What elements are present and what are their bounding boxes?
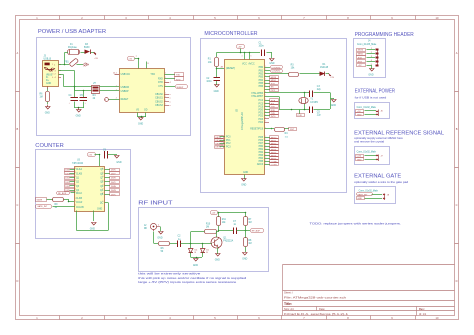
svg-text:COUNTER: COUNTER	[35, 143, 64, 149]
wire emitter to gnd	[217, 248, 219, 255]
svg-text:1: 1	[75, 201, 76, 203]
wires external power	[365, 111, 377, 115]
wire U1 TXD to label	[165, 74, 176, 76]
resistor R6 (USB shield)	[40, 89, 50, 105]
svg-text:+5V: +5V	[238, 47, 242, 49]
svg-text:PD5: PD5	[259, 137, 264, 139]
ground emitter	[215, 254, 220, 262]
global label RXD	[175, 77, 184, 82]
svg-text:RXD: RXD	[158, 78, 163, 80]
svg-text:PB6: PB6	[259, 86, 264, 88]
svg-text:GND: GND	[76, 116, 81, 118]
svg-text:File: ATMega328-usb-counter.sc: File: ATMega328-usb-counter.sch	[284, 295, 347, 299]
svg-text:POWER / USB ADAPTER: POWER / USB ADAPTER	[38, 29, 107, 35]
resistor pack R4	[92, 83, 100, 100]
svg-text:COM0: COM0	[271, 161, 278, 163]
wire rf +5V rail	[218, 212, 246, 214]
ferrite bead FB1	[65, 58, 84, 67]
ground C9	[115, 156, 122, 165]
svg-text:AVCC: AVCC	[248, 63, 255, 66]
svg-text:for if USB is not used: for if USB is not used	[355, 96, 387, 100]
capacitor C9	[103, 150, 117, 159]
global label RF_BUF (counter)	[57, 192, 76, 196]
pin numbers MCU right edge	[265, 66, 266, 165]
svg-text:4: 4	[116, 85, 117, 87]
svg-text:XTAL1/PB6: XTAL1/PB6	[251, 92, 264, 95]
pin texts USB	[52, 64, 55, 79]
wires external gate	[365, 195, 383, 199]
global labels external power	[356, 110, 364, 117]
junction xtal bottom	[304, 109, 306, 111]
junction U1 gnd	[141, 116, 143, 118]
svg-text:optionally supply external 10M: optionally supply external 10MHz here	[354, 136, 403, 140]
wire MCU reset row	[265, 128, 290, 130]
pin numbers counter edges	[75, 168, 103, 207]
svg-text:V: V	[52, 64, 53, 66]
power symbol +5V (USB vbus)	[94, 53, 99, 60]
ground xtal	[331, 99, 337, 108]
svg-text:PB2: PB2	[259, 74, 264, 76]
svg-text:CCLKB: CCLKB	[76, 207, 84, 209]
svg-text:C: C	[456, 203, 458, 207]
pin stub U1 DTR	[165, 82, 170, 84]
svg-text:RST: RST	[358, 61, 363, 63]
svg-text:RF_BUF: RF_BUF	[252, 231, 261, 233]
svg-text:9: 9	[103, 193, 104, 195]
svg-text:KiCad E.D.A. eeschema (5.1.2): KiCad E.D.A. eeschema (5.1.2)-1	[284, 312, 349, 316]
wire clamp diodes common	[191, 257, 203, 259]
wire R4 to U1 USBDP	[100, 90, 120, 92]
svg-text:+5V: +5V	[358, 65, 362, 67]
global label CLKI	[297, 110, 305, 117]
svg-text:Title:: Title:	[284, 302, 292, 306]
svg-text:CCLR: CCLR	[76, 202, 83, 204]
svg-text:DIVA: DIVA	[111, 185, 116, 188]
wire VBUS pin to fuse	[59, 53, 69, 65]
wire +5V rail MCU top	[217, 53, 273, 59]
junction counter vcc	[99, 154, 101, 156]
svg-text:Conn_01x05_Male: Conn_01x05_Male	[357, 44, 377, 46]
svg-text:TXD: TXD	[150, 74, 155, 76]
capacitor C1	[259, 43, 265, 57]
svg-text:PC5: PC5	[259, 103, 264, 105]
svg-text:1: 1	[75, 176, 76, 178]
svg-text:4: 4	[116, 98, 117, 100]
svg-text:KEY0: KEY0	[216, 137, 222, 139]
capacitor C2 rf	[178, 236, 182, 247]
svg-text:R10: R10	[206, 223, 211, 225]
svg-text:B: B	[456, 127, 458, 131]
svg-text:1M: 1M	[206, 227, 209, 229]
wire XTAL1	[265, 93, 331, 110]
svg-text:MOSI: MOSI	[358, 50, 364, 52]
svg-text:B: B	[17, 127, 19, 131]
svg-text:KEY3: KEY3	[216, 147, 222, 149]
power label +5V (rf)	[211, 211, 218, 215]
svg-text:this will pick up noise and/or: this will pick up noise and/or oscillate…	[138, 276, 247, 280]
wire R4 to U1 USBDM	[100, 86, 120, 88]
svg-text:CBUS3: CBUS3	[155, 105, 163, 107]
diode D1	[320, 64, 330, 76]
svg-text:74HC4040: 74HC4040	[72, 163, 84, 165]
connector J7 external reference	[357, 152, 384, 162]
svg-text:CBUS2: CBUS2	[155, 101, 163, 103]
wire C7 to RF_BUF	[237, 230, 251, 232]
svg-text:GND: GND	[116, 162, 121, 164]
svg-text:CLKI: CLKI	[297, 115, 302, 117]
svg-text:PB5: PB5	[259, 83, 264, 85]
svg-text:GND: GND	[45, 113, 50, 115]
svg-text:CLKB: CLKB	[76, 173, 82, 175]
svg-text:100n: 100n	[259, 46, 265, 48]
no-connect circle symbol	[105, 98, 120, 102]
svg-text:MOSI: MOSI	[271, 77, 277, 79]
svg-text:PD1: PD1	[259, 113, 264, 115]
svg-text:1M: 1M	[248, 243, 251, 245]
svg-text:GND: GND	[243, 172, 248, 174]
svg-text:PC1: PC1	[226, 140, 231, 142]
svg-text:6: 6	[251, 56, 252, 58]
svg-text:PB1: PB1	[259, 149, 264, 151]
svg-text:SLEEP: SLEEP	[177, 87, 184, 89]
svg-text:GATE: GATE	[37, 199, 43, 202]
svg-text:PD4: PD4	[259, 122, 264, 124]
svg-text:Sheet: /: Sheet: /	[284, 291, 293, 295]
svg-text:10k: 10k	[285, 136, 288, 138]
svg-text:PC0: PC0	[226, 137, 231, 139]
wire U1 RXD to label	[165, 78, 176, 80]
ground counter	[90, 223, 96, 231]
svg-text:EXTERNAL GATE: EXTERNAL GATE	[354, 173, 402, 179]
svg-text:KEY2: KEY2	[216, 143, 222, 145]
svg-text:1: 1	[75, 184, 76, 186]
global labels counter left stack	[65, 169, 76, 193]
wires external reference	[365, 156, 377, 160]
svg-text:KEY1: KEY1	[216, 140, 222, 142]
wire XTAL2	[265, 97, 331, 111]
svg-text:+5V: +5V	[128, 59, 132, 61]
svg-text:SCK: SCK	[271, 83, 276, 85]
svg-text:4: 4	[116, 89, 117, 91]
svg-text:PB3: PB3	[259, 155, 264, 157]
svg-text:CBUS0: CBUS0	[155, 94, 163, 96]
svg-text:B130: B130	[84, 47, 90, 49]
pin numbers U1 edges	[116, 73, 166, 106]
svg-text:GND: GND	[331, 105, 336, 107]
diode D3	[81, 44, 95, 54]
svg-text:GND: GND	[368, 75, 373, 77]
junction diode D2 rf	[202, 243, 204, 245]
svg-text:SEG7: SEG7	[271, 158, 277, 160]
wire MCU vcc pins	[245, 53, 250, 61]
svg-text:A: A	[456, 51, 458, 55]
svg-text:+5V: +5V	[88, 155, 92, 157]
wire reset to MCU	[217, 68, 225, 70]
svg-text:1: 1	[75, 205, 76, 207]
svg-text:PB5: PB5	[259, 161, 264, 163]
svg-text:USBVCC: USBVCC	[121, 74, 131, 76]
svg-text:RXD: RXD	[176, 79, 181, 81]
svg-text:DIVB: DIVB	[111, 190, 116, 192]
wires U1 ground pins	[138, 113, 147, 119]
svg-text:D-: D-	[46, 77, 49, 79]
svg-text:this will be extremely sensiti: this will be extremely sensitive	[138, 272, 201, 276]
svg-text:SEG1: SEG1	[271, 140, 277, 142]
global labels MCU right upper PC4-PC6	[265, 99, 279, 109]
svg-text:GATE_INT: GATE_INT	[357, 194, 368, 197]
power symbol +5V (D1)	[329, 74, 335, 80]
power label +5V (U1)	[128, 57, 139, 69]
junction diode D1 rf	[190, 243, 192, 245]
svg-text:TXD: TXD	[271, 113, 276, 115]
svg-text:GD: GD	[144, 110, 148, 112]
junction clki	[291, 109, 293, 111]
svg-text:EXTERNAL POWER: EXTERNAL POWER	[355, 88, 396, 94]
IC U2 ATmega328	[225, 60, 265, 175]
global label GATE_INT	[36, 205, 76, 209]
svg-text:ADC6: ADC6	[257, 163, 264, 166]
resistor R11	[217, 213, 227, 232]
ground caps C4 C5	[76, 108, 82, 118]
svg-text:TODO: replace jumpers with ser: TODO: replace jumpers with series soder …	[310, 222, 402, 226]
svg-text:9: 9	[103, 172, 104, 174]
svg-text:GND: GND	[357, 114, 362, 116]
global labels programming header	[357, 49, 366, 68]
svg-text:4: 4	[242, 56, 243, 58]
svg-text:1: 1	[75, 192, 76, 194]
svg-text:1: 1	[75, 168, 76, 170]
resistor R2	[289, 64, 299, 76]
ground under R6	[45, 105, 50, 115]
pin stubs USB J3	[48, 65, 62, 90]
resistor R10 feedback	[191, 223, 220, 243]
svg-text:GND: GND	[242, 258, 247, 260]
svg-text:Conn_01x02_Male: Conn_01x02_Male	[357, 152, 377, 154]
fuse F1	[68, 44, 80, 55]
resistor R8	[244, 231, 253, 253]
svg-text:+5V: +5V	[357, 111, 361, 113]
svg-text:SEG4: SEG4	[271, 149, 277, 151]
svg-text:Conn_01x02_Male: Conn_01x02_Male	[357, 107, 377, 109]
svg-text:Date:: Date:	[319, 307, 325, 311]
svg-text:USBDP: USBDP	[121, 91, 129, 93]
global label RST (MCU)	[289, 128, 297, 131]
global labels MCU right lower stack	[265, 136, 279, 167]
wire caps to ground	[75, 107, 85, 109]
svg-text:1N4148: 1N4148	[320, 67, 329, 69]
svg-text:optionally solder a wire to th: optionally solder a wire to the gate pad	[354, 180, 409, 184]
svg-text:PB4: PB4	[259, 80, 264, 82]
svg-text:GND: GND	[357, 198, 362, 200]
svg-text:RST: RST	[290, 129, 295, 131]
junction reset	[216, 68, 218, 70]
svg-text:GND: GND	[214, 91, 219, 93]
svg-text:USB_B: USB_B	[44, 58, 52, 60]
svg-text:2: 2	[222, 67, 223, 69]
svg-text:RXD: RXD	[271, 110, 276, 112]
power label +5V (counter)	[88, 153, 100, 167]
svg-text:USBDM: USBDM	[121, 87, 129, 89]
svg-text:COUNT1: COUNT1	[272, 71, 281, 73]
svg-text:1M: 1M	[40, 97, 43, 99]
svg-text:Polyfuse: Polyfuse	[68, 47, 78, 49]
wire counter gnd	[93, 211, 95, 222]
junction clamp gnd	[196, 257, 198, 259]
global labels MCU left PC0-PC3	[215, 136, 226, 149]
svg-text:1M: 1M	[248, 222, 251, 224]
junction reset row	[271, 128, 273, 130]
USB connector J3	[43, 56, 59, 87]
svg-text:C: C	[16, 203, 18, 207]
BNC connector J2	[144, 223, 160, 231]
svg-text:PB3: PB3	[259, 77, 264, 79]
svg-text:GND: GND	[193, 265, 198, 267]
capacitor C5	[80, 91, 88, 109]
svg-text:TXD: TXD	[271, 106, 276, 108]
svg-text:large +-5V (PPV) inputs requir: large +-5V (PPV) inputs require extra se…	[138, 280, 237, 284]
svg-text:GATE_INT: GATE_INT	[37, 205, 48, 208]
connector J4 programming header	[357, 40, 379, 66]
wire U1 pin V3	[146, 62, 148, 69]
wire MCU pb0 to oval label	[265, 67, 271, 69]
svg-text:+5V: +5V	[330, 77, 334, 79]
junction caps gnd	[78, 107, 80, 109]
svg-text:and remove the crystal: and remove the crystal	[354, 139, 384, 143]
resistor R7	[244, 213, 253, 232]
svg-text:GND: GND	[97, 208, 102, 210]
global label GATE	[36, 198, 47, 202]
resistor R9	[47, 198, 75, 210]
svg-text:Rev:: Rev:	[419, 307, 425, 311]
wire USB D+ routing	[59, 75, 92, 87]
resistor R6 rf	[159, 242, 170, 254]
svg-text:RESET/PC6: RESET/PC6	[250, 129, 263, 131]
svg-text:CTS: CTS	[158, 86, 163, 88]
junction collector	[218, 230, 220, 232]
junction rf rail R7	[245, 212, 247, 214]
junction rail a	[240, 52, 242, 54]
svg-text:PB0: PB0	[259, 146, 264, 148]
global label TXD	[175, 73, 184, 77]
svg-text:CLKB: CLKB	[76, 198, 82, 200]
junction VBUS	[64, 64, 66, 66]
svg-text:PB0: PB0	[259, 67, 264, 69]
svg-text:+5V: +5V	[212, 212, 216, 214]
global label SLEEP	[176, 85, 188, 89]
wire BNC shield to gnd	[160, 227, 162, 232]
capacitor C2	[206, 69, 220, 86]
svg-text:PB4: PB4	[259, 158, 264, 160]
svg-text:D: D	[456, 279, 458, 283]
svg-text:SEG5: SEG5	[271, 152, 277, 154]
svg-text:RESET: RESET	[121, 99, 129, 101]
svg-text:GND: GND	[138, 123, 143, 125]
svg-text:PD6: PD6	[259, 140, 264, 142]
connector J5 external power	[357, 107, 384, 116]
svg-text:CLKI: CLKI	[357, 156, 362, 158]
svg-text:GND: GND	[269, 63, 274, 65]
svg-text:RF INPUT: RF INPUT	[138, 200, 172, 206]
junction U1 vcc	[138, 58, 140, 60]
capacitor C4	[69, 87, 79, 109]
ground programming header	[368, 69, 374, 77]
ground U1	[138, 118, 143, 126]
svg-text:XTAL2/PB7: XTAL2/PB7	[251, 95, 264, 98]
svg-text:Id: 1/1: Id: 1/1	[419, 312, 427, 316]
svg-text:Size: A4: Size: A4	[284, 307, 294, 311]
junction rail c	[249, 52, 251, 54]
junction xtal top	[304, 92, 306, 94]
ground C1	[269, 59, 274, 66]
svg-text:16 MHz: 16 MHz	[310, 102, 319, 104]
title block	[283, 265, 455, 317]
global label COUNT0 oval	[271, 66, 283, 70]
wire MCU gnd	[244, 175, 246, 180]
global label RF_BUF (rf out)	[251, 229, 264, 233]
wire MCU pb1 to oval label	[265, 70, 271, 72]
wire counter feedback loop	[77, 203, 109, 231]
svg-text:9: 9	[103, 201, 104, 203]
svg-text:SEG2: SEG2	[271, 143, 277, 145]
svg-text:SEG6: SEG6	[271, 155, 277, 157]
svg-text:PROGRAMMING HEADER: PROGRAMMING HEADER	[355, 32, 414, 38]
junction rail b	[244, 52, 246, 54]
global labels external gate	[357, 193, 373, 201]
capacitor C5b	[310, 107, 322, 117]
wire R6 to C2	[170, 243, 178, 245]
power label +5V (MCU)	[237, 45, 245, 54]
svg-text:PD3: PD3	[259, 119, 264, 121]
transistor Q1	[211, 237, 234, 249]
svg-text:COM1: COM1	[271, 164, 278, 166]
global labels counter right stack	[105, 169, 120, 197]
junction out node	[245, 230, 247, 232]
svg-text:SDA: SDA	[271, 99, 276, 102]
svg-text:GND: GND	[90, 229, 95, 231]
junction D- cap C4	[74, 86, 76, 88]
ground clamp diodes	[193, 259, 198, 268]
svg-text:MISO: MISO	[271, 80, 277, 82]
svg-text:VS: VS	[136, 110, 140, 112]
crystal Y1	[299, 93, 319, 110]
global labels MCU right mid PD0-PD2	[265, 109, 279, 118]
svg-text:9: 9	[103, 184, 104, 186]
ground MCU	[241, 179, 246, 187]
svg-text:MISO: MISO	[358, 54, 364, 56]
pin stubs U1 CBUS	[165, 94, 172, 107]
resistor R5 reset	[275, 128, 289, 139]
svg-text:GND: GND	[215, 260, 220, 262]
svg-text:D: D	[16, 279, 18, 283]
svg-text:RF_BUF: RF_BUF	[58, 193, 67, 195]
svg-text:RCLK: RCLK	[76, 193, 83, 195]
diode D4 clamp	[189, 244, 199, 258]
svg-text:GND: GND	[241, 185, 246, 187]
svg-text:A: A	[17, 51, 19, 55]
svg-text:DTR: DTR	[158, 82, 163, 84]
svg-text:PD7: PD7	[259, 143, 264, 145]
svg-text:SEG3: SEG3	[271, 146, 277, 148]
svg-text:+5V: +5V	[94, 58, 98, 60]
svg-text:ATmega328P-AU: ATmega328P-AU	[241, 112, 244, 130]
wire BNC to R6	[154, 232, 159, 244]
svg-text:9: 9	[103, 180, 104, 182]
svg-text:Conn_01x02_Male: Conn_01x02_Male	[359, 190, 379, 192]
svg-text:COUNT0: COUNT0	[272, 67, 281, 69]
svg-text:SCK: SCK	[358, 57, 363, 59]
svg-text:MICROCONTROLLER: MICROCONTROLLER	[204, 31, 258, 37]
resistor R1	[208, 53, 219, 70]
